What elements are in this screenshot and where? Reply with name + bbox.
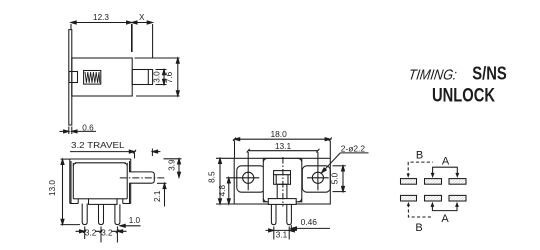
svg-text:A: A bbox=[441, 213, 449, 225]
plate left wall bbox=[70, 159, 71, 204]
bracket plate front: top edge bbox=[70, 158, 131, 160]
svg-text:3.1: 3.1 bbox=[276, 231, 288, 240]
top B dashed link bbox=[407, 162, 433, 178]
right wing bbox=[302, 166, 330, 192]
knob cap (top view) bbox=[274, 171, 291, 185]
svg-text:TIMING:: TIMING: bbox=[407, 67, 457, 83]
dimension 2.1 bbox=[157, 183, 167, 206]
bracket feet bbox=[70, 199, 131, 204]
pin 2 bbox=[99, 204, 104, 224]
svg-text:8.5: 8.5 bbox=[208, 171, 217, 183]
dimension 0.46 bbox=[291, 225, 330, 232]
pad row2 col3 bbox=[449, 195, 466, 201]
svg-text:5.0: 5.0 bbox=[331, 172, 340, 184]
plate right wall bbox=[130, 159, 131, 204]
dimension 3.1 bbox=[266, 227, 298, 240]
spring box bbox=[84, 71, 101, 85]
dimension 3.0 bbox=[156, 70, 167, 85]
center body block bbox=[263, 158, 302, 201]
svg-text:A: A bbox=[442, 156, 450, 168]
pin 3 bbox=[115, 204, 120, 224]
body bottom edge bbox=[73, 198, 127, 200]
pin 1 bbox=[82, 204, 87, 225]
dimension 0.6 bbox=[60, 127, 97, 135]
svg-text:1.0: 1.0 bbox=[129, 216, 141, 225]
svg-text:13.1: 13.1 bbox=[275, 141, 292, 151]
mounting post through plate bbox=[69, 72, 78, 83]
pad row1 col1 bbox=[401, 179, 417, 185]
left hole bbox=[226, 152, 259, 190]
pad row2 col1 bbox=[401, 195, 417, 201]
right hole bbox=[307, 152, 329, 190]
top A solid link bbox=[431, 167, 460, 178]
svg-text:UNLOCK: UNLOCK bbox=[432, 85, 495, 107]
svg-text:18.0: 18.0 bbox=[270, 129, 287, 139]
extension lines bbox=[71, 24, 153, 58]
pin A (top view) bbox=[271, 204, 276, 224]
dimension 13.1 bbox=[247, 149, 320, 153]
svg-text:3.2 TRAVEL: 3.2 TRAVEL bbox=[71, 141, 125, 150]
dimension 4.8 bbox=[227, 178, 230, 204]
actuator knob (side view) bbox=[132, 70, 152, 85]
left wing bbox=[237, 166, 265, 192]
extension line top right bbox=[135, 57, 180, 59]
svg-text:12.3: 12.3 bbox=[93, 13, 109, 22]
svg-text:S/NS: S/NS bbox=[472, 63, 507, 83]
travel dim line bbox=[70, 149, 160, 159]
pin B (top view) bbox=[287, 204, 292, 224]
pad row1 col2 bbox=[425, 179, 442, 185]
base platform bbox=[89, 199, 118, 205]
svg-text:3.0: 3.0 bbox=[153, 71, 162, 83]
pad row2 col2 bbox=[425, 195, 442, 201]
bottom B dashed link bbox=[407, 202, 433, 217]
svg-text:0.6: 0.6 bbox=[82, 123, 94, 132]
svg-text:2-ø2.2: 2-ø2.2 bbox=[341, 144, 366, 154]
actuator knob (front view) bbox=[129, 172, 154, 183]
svg-text:B: B bbox=[415, 222, 422, 234]
svg-text:3.2: 3.2 bbox=[85, 228, 97, 237]
extension line bottom right bbox=[136, 95, 180, 97]
bottom dims 3.2 3.2 bbox=[76, 227, 127, 243]
bracket plate (side view) bbox=[69, 30, 72, 125]
knob body (top view) bbox=[277, 184, 287, 199]
svg-text:X: X bbox=[139, 13, 145, 22]
dimension 3.9 bbox=[164, 159, 182, 178]
body front face bbox=[73, 163, 127, 199]
dimension 1.0 bbox=[120, 224, 141, 227]
switch body (side view) bbox=[72, 58, 132, 96]
svg-text:0.46: 0.46 bbox=[301, 217, 318, 227]
svg-text:13.0: 13.0 bbox=[48, 180, 57, 196]
svg-text:3.9: 3.9 bbox=[167, 159, 176, 171]
svg-text:2.1: 2.1 bbox=[153, 190, 162, 202]
dimension 7.6 bbox=[176, 58, 179, 96]
svg-text:7.6: 7.6 bbox=[165, 71, 174, 83]
knob center line bbox=[120, 177, 166, 179]
bracket bar (top view) bbox=[234, 158, 330, 204]
bottom A solid link bbox=[431, 202, 459, 211]
base flange (top view) bbox=[268, 199, 296, 205]
dimension 13.0 bbox=[61, 159, 81, 225]
dimension 5.0 bbox=[333, 166, 346, 192]
pad row1 col3 bbox=[449, 179, 466, 185]
dimension 18.0 bbox=[233, 137, 332, 157]
svg-text:4.8: 4.8 bbox=[218, 185, 227, 197]
svg-text:B: B bbox=[416, 149, 423, 161]
dimension 8.5 bbox=[216, 158, 234, 204]
svg-text:3.2: 3.2 bbox=[101, 228, 113, 237]
dimension 12.3 / X dim line bbox=[71, 21, 152, 24]
center line (top view) bbox=[282, 157, 284, 207]
label 2-ø2.2 with leader bbox=[321, 153, 369, 174]
